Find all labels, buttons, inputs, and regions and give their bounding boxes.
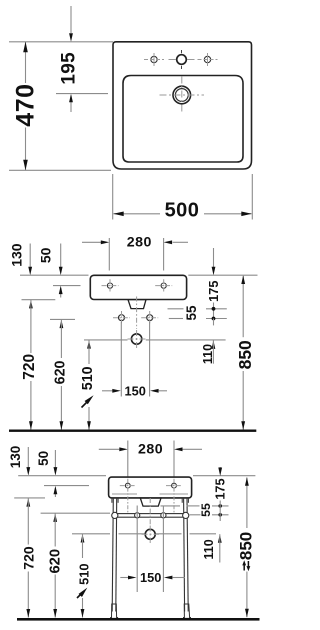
extension fixing hole line left [44,485,89,487]
dimension 850 line [242,276,244,337]
extension line hole left [108,238,110,271]
extension trap bottom right [168,308,184,310]
dimension 510 lower line [82,598,84,618]
dimension 175 upper arrow [219,467,221,470]
dimension 50 upper arrow [60,244,62,268]
dimension 50 lower arrow [60,288,62,298]
svg-text:720: 720 [21,546,37,570]
svg-text:50: 50 [36,451,51,466]
crossbar knob right [183,512,189,518]
crossbar [115,514,186,518]
dimension 110 arrow [218,534,222,543]
drain trap [140,498,161,506]
svg-text:720: 720 [21,354,38,380]
svg-text:850: 850 [235,340,255,369]
extension rim line left [18,475,106,477]
dimension 175 line to dot [213,303,215,319]
floor line (console view) [17,618,260,621]
dimension 150 arrows [102,390,113,392]
extension rim line right [193,475,255,477]
dimension 175 upper arrow [213,248,215,267]
lower hole right [147,315,153,321]
dimension 850 line [246,478,248,529]
svg-text:620: 620 [47,549,63,574]
extension fixing hole line left [53,285,81,287]
svg-text:130: 130 [8,243,24,267]
dimension 50 upper arrow [54,450,56,468]
svg-text:850: 850 [237,532,256,560]
svg-text:500: 500 [165,199,200,221]
dimension 720 line [29,300,33,309]
dimension 280 line right [173,241,188,243]
dimension 620 line [60,320,64,329]
washbasin inner basin [123,76,243,163]
leg bracket right [181,498,183,503]
dimension 510 lower line [88,407,90,430]
drain outlet circle [145,529,155,539]
faucet hole right (phantom) [204,56,210,62]
extension rim line right [188,274,257,276]
leg left [112,498,113,612]
dimension 50 lower arrow [54,488,56,497]
extension sink bottom left [14,497,45,499]
extension 150 left [136,506,138,593]
extension lower holes left [50,318,75,320]
svg-text:110: 110 [201,344,215,364]
dimension 130 upper arrow [27,447,29,468]
basin interior hidden line [112,493,137,495]
extension line hole right [163,238,165,271]
svg-text:55: 55 [199,503,213,517]
washbasin body front [90,275,186,299]
extension crossbar left [41,512,110,514]
leg right [184,498,185,612]
extension line bottom edge [9,169,111,171]
svg-text:150: 150 [125,383,146,398]
extension line 500 left [112,174,114,220]
crossbar clamp left [135,513,140,518]
dimension 110 arrow [212,340,216,349]
drain crosshair [142,533,160,535]
height adjustability symbol [242,560,250,571]
extension rim line left [20,274,89,276]
dimension 500 line [114,213,161,215]
washbasin outer rim [113,42,252,169]
drain trap [128,300,146,309]
extension line 500 right [251,174,253,220]
svg-text:510: 510 [76,564,91,585]
extension hole right [173,441,175,477]
extension line overflow centre [56,93,108,95]
svg-text:55: 55 [184,305,199,321]
leg bracket left [111,498,113,503]
extension trap bottom right [161,505,181,507]
overflow crosshair [160,94,205,96]
svg-text:195: 195 [59,52,80,85]
faucet hole centre [177,55,187,65]
dimension 280 line left [82,241,101,243]
svg-text:150: 150 [140,570,161,585]
extension lower holes line [190,514,201,516]
centre dash line [149,498,151,526]
extension sink bottom left [22,299,56,301]
washbasin body front [109,477,192,498]
extension lower holes right [169,318,183,320]
extension 150 right [162,506,164,593]
fixing hole left [125,483,130,488]
dimension 510 diagonal arrow [82,401,89,408]
svg-text:130: 130 [8,446,23,469]
crossbar clamp right [161,513,166,518]
svg-text:50: 50 [37,247,53,263]
extension line top edge [9,41,113,43]
overflow hole inner [175,89,188,102]
dimension 510 upper arrow [87,340,91,349]
svg-text:175: 175 [213,478,228,499]
foot right [184,604,191,618]
svg-text:510: 510 [80,366,96,390]
foot left [111,604,118,618]
dimension 150 arrows [120,577,128,579]
svg-text:175: 175 [206,281,221,302]
dimension 510 upper arrow [81,534,85,543]
dimension 280 line right [174,447,183,451]
svg-text:280: 280 [138,442,163,458]
extension drain centre line [84,339,128,341]
svg-text:280: 280 [127,235,152,251]
dimension 510 diagonal arrow [77,592,83,598]
floor line (wall mounted view) [9,430,256,432]
extension hole left [127,441,129,477]
extension 150 right [149,322,151,397]
drain crosshair [128,338,146,340]
svg-text:470: 470 [12,83,40,126]
extension 150 left [120,322,122,397]
dimension 55 dot [212,317,216,321]
svg-text:620: 620 [52,360,68,384]
dimension 130 upper arrow [29,244,31,268]
overflow hole outer [173,86,191,104]
dimension 280 line left [99,448,120,450]
dimension 720 line [27,498,29,544]
fixing hole left [107,283,112,288]
extension drain centre line [72,533,110,535]
fixing hole right [172,483,177,488]
lower hole left [119,315,125,321]
dimension 195 lower arrow [70,102,72,112]
fixing hole right [161,283,166,288]
drain outlet circle [131,334,141,344]
faucet hole left (phantom) [151,56,157,62]
dimension 620 line [53,513,57,522]
dimension 55 dots [218,504,222,508]
dimension 195 upper arrow [70,6,72,33]
svg-text:110: 110 [202,539,216,559]
dimension 720 top arrow [26,498,30,507]
crossbar knob left [112,512,118,518]
dimension 470 line [25,42,27,83]
centre dash line [136,297,138,330]
